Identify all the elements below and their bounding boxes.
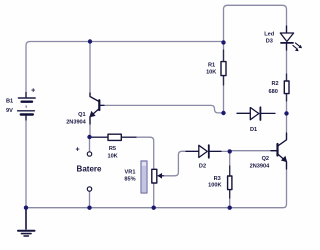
svg-text:Led: Led (264, 31, 275, 37)
wire: Q1 emitter down to battery + node (89, 117, 91, 138)
svg-text:B1: B1 (6, 98, 13, 104)
svg-text:2N3904: 2N3904 (250, 163, 270, 169)
wire: left rail battery bottom down to ground node (25, 116, 27, 208)
battery B1 (18, 93, 36, 121)
node: Q1 emitter / R5 / batere + (87, 135, 91, 139)
resistor R5 (92, 134, 137, 140)
wire: bottom ground bus (26, 162, 287, 208)
wire: node A vertical (top rail to R1) (224, 5, 228, 113)
svg-text:10K: 10K (206, 70, 216, 76)
node: batere bottom / bus (87, 206, 91, 210)
wire: D2 cathode to node B (210, 150, 230, 152)
transistor Q2 emitter arrow (281, 156, 287, 163)
svg-text:D2: D2 (199, 164, 206, 170)
wire: R5 feed from + node and over/down to VR1 (90, 137, 154, 208)
svg-text:R2: R2 (272, 81, 279, 87)
svg-text:D1: D1 (250, 127, 257, 133)
svg-text:+: + (31, 88, 35, 95)
wire: Q1 collector riser (89, 42, 91, 97)
wire: batere terminal stub top (89, 137, 91, 152)
resistor R3 (228, 166, 232, 198)
ground (18, 208, 35, 236)
connector terminal + (batere top) (87, 152, 91, 156)
svg-text:D3: D3 (266, 39, 273, 45)
wire: top-left rail from battery up and across to node A (26, 42, 224, 98)
node A: top wire / R1 riser (221, 40, 225, 44)
svg-text:2N3904: 2N3904 (66, 119, 86, 125)
wire: LED cathode down through R2 to D1 node (286, 43, 288, 139)
node: top wire / Q1 collector (88, 39, 92, 43)
wire: node B down through R3 to bottom bus (229, 152, 231, 208)
resistor R1 (221, 50, 226, 85)
potentiometer VR1 wiper arrow (157, 173, 163, 179)
potentiometer VR1 level indicator (141, 161, 147, 193)
resistor R2 (284, 74, 289, 101)
node: ground corner (24, 206, 28, 210)
svg-text:Q1: Q1 (78, 112, 85, 118)
svg-text:85%: 85% (124, 177, 135, 183)
wire: VR1 wiper to D2 anode (162, 151, 199, 176)
svg-text:Batere: Batere (77, 164, 102, 173)
node B: D2 cathode / R3 / Q2 base (228, 149, 232, 153)
svg-text:R1: R1 (208, 62, 215, 68)
transistor Q2 (271, 133, 287, 169)
node: R1 bottom / Q1 base / D1 anode (221, 111, 225, 115)
svg-text:+: + (75, 147, 79, 154)
svg-text:9V: 9V (6, 108, 13, 114)
connector terminal (batere bottom) (87, 187, 91, 191)
wire: batere terminal stub bottom (89, 191, 91, 207)
wire: top rail over to LED D3 (228, 5, 287, 33)
svg-text:Q2: Q2 (262, 156, 269, 162)
node: R3 bottom / bus (228, 206, 232, 210)
wire: node B to Q2 base (230, 150, 277, 152)
LED D3 emission arrows (293, 43, 302, 51)
diode D2 (186, 145, 221, 158)
svg-text:VR1: VR1 (125, 169, 136, 175)
svg-text:R5: R5 (109, 146, 116, 152)
node: D1 cathode / LED rail (284, 111, 288, 115)
svg-text:R3: R3 (214, 176, 221, 182)
wire: Q1 base run to D1 node with jog (101, 105, 224, 113)
transistor Q1 emitter arrow (89, 111, 95, 118)
potentiometer VR1 body (152, 169, 157, 183)
diode D1 (237, 107, 275, 120)
transistor Q1 (90, 93, 104, 124)
svg-text:100K: 100K (208, 183, 221, 189)
node: VR1 bottom / bus (152, 206, 156, 210)
svg-text:10K: 10K (107, 153, 117, 159)
LED D3 (280, 26, 293, 50)
svg-text:680: 680 (269, 89, 278, 95)
